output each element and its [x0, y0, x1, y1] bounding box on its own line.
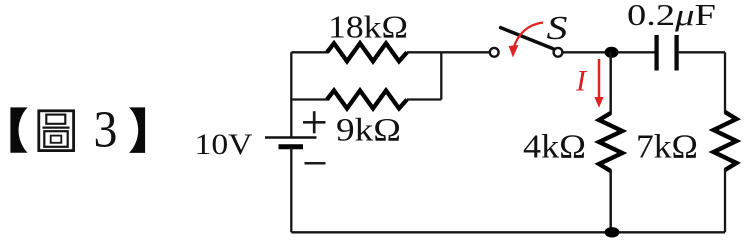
svg-text:S: S	[547, 10, 568, 47]
capacitor C1 left plate	[654, 35, 658, 71]
resistor R1 18k zigzag	[327, 43, 407, 61]
wire resistor R3 bottom to node D	[609, 170, 612, 232]
switch S left terminal circle	[490, 48, 499, 57]
battery minus sign	[305, 162, 326, 165]
wire left rail to resistor R2 left	[291, 98, 328, 100]
wire node C to capacitor C1 left plate	[616, 51, 655, 53]
battery plus sign	[303, 111, 326, 133]
figure label character tu (picture)	[39, 111, 74, 151]
resistor R4 7k zigzag	[714, 112, 737, 170]
wire node C down to resistor R3	[609, 52, 612, 114]
switch red arc arrowhead	[509, 45, 519, 58]
wire top-right corner down to resistor R4	[724, 52, 726, 113]
wire node A to resistor R1 left	[291, 51, 328, 53]
current I red arrow	[598, 59, 601, 99]
resistor R2 9k zigzag	[327, 91, 407, 109]
wire node B vertical tie	[440, 52, 442, 99]
svg-text:18kΩ: 18kΩ	[328, 9, 408, 45]
figure label bracket right	[129, 107, 145, 152]
junction node C dot	[605, 47, 619, 58]
wire capacitor C1 right plate to top-right corner	[679, 51, 725, 53]
wire resistor R2 right to node B	[407, 98, 441, 100]
wire resistor R1 right to node B	[407, 51, 441, 53]
junction node D dot	[605, 227, 620, 237]
svg-text:7kΩ: 7kΩ	[636, 128, 698, 165]
wire resistor R4 bottom to bottom-right corner	[724, 169, 726, 232]
wire battery - to bottom-left corner	[290, 147, 292, 232]
figure label bracket left	[10, 107, 27, 152]
switch S right terminal circle	[554, 48, 563, 57]
battery V1 positive long plate	[265, 136, 317, 139]
switch closing motion red arc arrow	[514, 23, 543, 48]
wire switch right terminal to node C	[563, 51, 606, 53]
battery V1 negative short plate	[279, 144, 304, 149]
switch S blade	[501, 28, 554, 49]
svg-text:4kΩ: 4kΩ	[523, 128, 586, 165]
svg-text:I: I	[575, 65, 588, 98]
wire top-left vertical (node A to battery +)	[290, 52, 292, 137]
svg-text:9kΩ: 9kΩ	[336, 113, 401, 149]
current I red arrowhead	[594, 97, 603, 108]
svg-text:10V: 10V	[195, 128, 253, 161]
wire bottom rail	[291, 231, 725, 233]
resistor R3 4k zigzag	[599, 113, 622, 171]
wire node B to switch left terminal	[441, 51, 490, 53]
capacitor C1 right plate	[674, 35, 678, 71]
svg-text:3: 3	[94, 100, 118, 158]
svg-text:0.2μF: 0.2μF	[627, 0, 716, 32]
